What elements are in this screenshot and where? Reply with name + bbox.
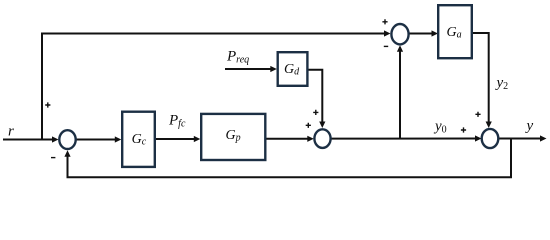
- svg-text:y: y: [525, 118, 534, 134]
- svg-text:r: r: [8, 124, 14, 140]
